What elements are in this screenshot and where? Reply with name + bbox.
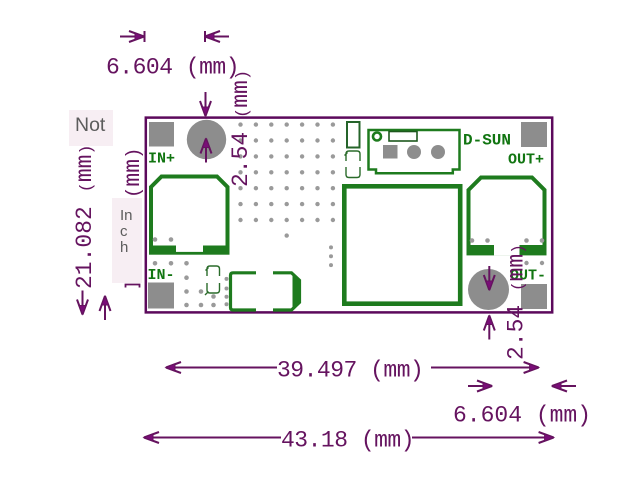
resistor R2 smd outline near IN-: [205, 266, 220, 295]
trimmer RV1 pin pad round 1: [407, 145, 421, 159]
via dot single: [285, 233, 289, 237]
capacitor C3 smd outline: [345, 151, 361, 178]
partial glyph of hidden text: [126, 285, 140, 288]
dimension 43.18 left arrowhead: [144, 432, 159, 443]
capacitor C2 footprint outline: [469, 178, 545, 254]
via dots near OUT-: [524, 261, 528, 265]
pad OUT+ (top-right): [521, 122, 547, 147]
svg-text:In: In: [120, 207, 133, 224]
trimmer RV1 screw hole: [373, 133, 381, 141]
dimension 6.604 top left arrow: [120, 31, 144, 42]
arrow up (inch dimension): [100, 296, 111, 320]
diode D1 thick cathode bar: [293, 273, 302, 310]
svg-text:21.082 (mm): 21.082 (mm): [72, 144, 98, 289]
svg-text:c: c: [120, 223, 128, 240]
PCB board outline: [146, 118, 552, 313]
pad IN- (bottom-left): [148, 283, 174, 309]
extension tick left: [144, 31, 146, 42]
capacitor C1 input electrolytic: [187, 120, 226, 159]
tooltip Not: [69, 110, 113, 146]
svg-text:h: h: [120, 239, 128, 256]
extension tick right: [204, 31, 206, 42]
via dots in C2 footprint: [470, 238, 475, 243]
svg-text:(mm): (mm): [120, 148, 146, 198]
trimmer RV1 pin pad square: [383, 145, 398, 159]
svg-text:Not: Not: [75, 114, 106, 136]
dimension 39.497 right arrowhead: [524, 362, 539, 373]
pad OUT- (bottom-right): [521, 284, 547, 309]
dimension 6.604 mm bottom arrows: [468, 381, 492, 392]
svg-text:D-SUN: D-SUN: [463, 132, 511, 150]
via dots in L1: [153, 237, 158, 242]
svg-text:OUT+: OUT+: [508, 152, 544, 169]
trimmer RV1 pin pad round 2: [431, 145, 445, 159]
resistor R1 smd outline: [347, 122, 360, 148]
dimension 43.18 mm line: [145, 437, 554, 439]
via dot grid: [153, 122, 545, 307]
arrow up to board bottom edge right: [484, 316, 495, 340]
svg-text:2.54 (mm): 2.54 (mm): [228, 70, 254, 187]
pad IN+ (top-left): [149, 122, 174, 147]
arrow up to C1 center: [201, 139, 212, 163]
arrow down to board bottom edge left: [77, 291, 88, 315]
svg-text:43.18 (mm): 43.18 (mm): [281, 428, 414, 454]
IC U1 LM2596 outline: [344, 186, 460, 303]
diode D1 smd outline: [231, 273, 300, 310]
trimmer RV1 label box: [389, 132, 417, 142]
inductor L1 bottom pad bar: [149, 246, 230, 255]
trimmer RV1 outline: [369, 130, 460, 173]
dimension 39.497 mm line: [167, 367, 539, 369]
svg-text:IN+: IN+: [148, 151, 175, 168]
svg-text:39.497 (mm): 39.497 (mm): [277, 358, 423, 384]
via dots fine column left: [225, 277, 229, 281]
svg-text:6.604 (mm): 6.604 (mm): [453, 403, 591, 429]
arrow down to C2 center: [484, 266, 495, 290]
inductor L1 outline: [151, 177, 228, 253]
via dots bottom-left cluster: [153, 261, 158, 266]
capacitor C2 output electrolytic: [468, 269, 509, 310]
dimension 39.497 left arrowhead: [166, 362, 181, 373]
tooltip Inch: [112, 198, 142, 283]
svg-text:2.54 (mm): 2.54 (mm): [504, 244, 530, 360]
capacitor C2 footprint bottom pad bar: [467, 245, 547, 255]
via dots fine column right: [329, 245, 333, 249]
svg-text:6.604 (mm): 6.604 (mm): [106, 55, 239, 81]
dimension 43.18 right arrowhead: [539, 432, 554, 443]
arrow down to board top edge: [200, 92, 211, 116]
svg-text:IN-: IN-: [148, 267, 175, 284]
dimension 6.604 top right arrow: [205, 31, 229, 42]
